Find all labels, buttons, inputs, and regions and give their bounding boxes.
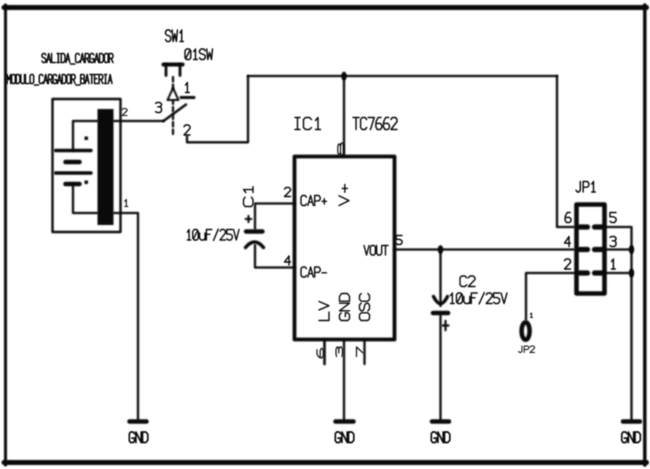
IC1 pin label V+ xyxy=(339,184,349,205)
JP1 pin 4 number xyxy=(565,237,571,247)
battery contact bar xyxy=(98,109,114,225)
battery cell plates xyxy=(56,151,92,185)
connector JP2 xyxy=(522,322,530,340)
label TC7662 xyxy=(353,118,397,130)
label IC1 xyxy=(295,118,321,130)
capacitor C1 xyxy=(246,216,264,248)
IC1 pin 2 number xyxy=(285,188,291,197)
wire V+ rail top xyxy=(248,75,557,77)
wire C1 to IC pin4 xyxy=(255,245,295,268)
IC1 pin label CAP- xyxy=(301,267,326,277)
wire VOUT to C2 xyxy=(439,250,441,307)
wire rail to JP1 pin 6 xyxy=(557,76,574,227)
battery pin 1 number xyxy=(125,200,128,207)
IC1 pin label OSC xyxy=(360,294,370,321)
JP1 pin 2 number xyxy=(565,259,571,269)
IC1 pin 6 number xyxy=(317,349,324,359)
junction node VOUT xyxy=(438,245,443,254)
wire V+ to IC pin 8 xyxy=(343,76,345,156)
switch pin 1 number xyxy=(186,83,190,93)
label SW1 xyxy=(166,30,184,42)
battery polarity dots xyxy=(85,137,89,185)
junction node pin3 xyxy=(629,245,634,254)
wire IC1 pin 3 to GND xyxy=(343,340,345,420)
capacitor C2 xyxy=(433,297,448,331)
IC1 pin label VOUT xyxy=(364,246,388,256)
IC1 pin 7 stub xyxy=(363,340,365,364)
wire VOUT to JP1 pin 4 xyxy=(395,248,575,250)
IC1 pin 6 stub xyxy=(323,340,326,364)
JP1 pads xyxy=(580,227,603,273)
junction node V+ xyxy=(341,72,346,81)
JP1 pin 1 number xyxy=(612,259,616,269)
label C1 value 10uF/25V xyxy=(187,229,239,240)
ground GND C2 xyxy=(432,419,449,424)
JP1 pin 3 number xyxy=(610,237,616,247)
wire JP1 pin 2 to JP2 xyxy=(526,273,577,320)
IC1 pin label LV xyxy=(319,302,329,321)
label JP1 xyxy=(576,182,595,193)
wire battery to switch pin 3 xyxy=(114,120,164,122)
wire JP1 pin5 bus to GND xyxy=(605,227,632,420)
label C2 value 10uF/25V xyxy=(450,293,507,304)
IC IC1 box xyxy=(295,157,395,340)
battery module outline xyxy=(53,99,121,232)
ground GND IC1 xyxy=(336,419,354,424)
label C2 xyxy=(460,276,475,287)
switch pin 3 number xyxy=(156,103,162,113)
switch pin 2 number xyxy=(184,125,190,135)
battery pin 2 number xyxy=(122,109,127,116)
wire switch pin2 to rail xyxy=(187,76,248,142)
IC1 pin 3 number xyxy=(336,347,343,357)
battery internal wiring xyxy=(73,121,98,213)
JP1 pin 6 number xyxy=(565,213,571,223)
IC1 pin 5 number xyxy=(396,236,402,245)
wire JP1 pin 1 xyxy=(605,272,632,274)
junction node pin1 xyxy=(629,269,634,278)
label JP2 xyxy=(519,346,535,353)
JP1 pin 5 number xyxy=(610,213,616,223)
ground GND JP1 xyxy=(623,419,640,424)
JP2 pin 1 number xyxy=(530,313,532,318)
label C1 xyxy=(244,187,254,207)
wire C2 to GND xyxy=(439,315,441,420)
wire JP1 pin 3 xyxy=(605,248,632,250)
IC1 pin 4 number xyxy=(285,256,291,265)
IC1 pin label CAP+ xyxy=(301,196,326,206)
wire IC pin2 to C1 xyxy=(255,204,295,230)
label SALIDA_CARGADOR xyxy=(42,54,113,65)
IC1 pin 7 number xyxy=(357,347,364,357)
IC1 pin label GND xyxy=(340,294,350,321)
connector JP1 box xyxy=(577,205,605,294)
label MODULO_CARGADOR_BATERIA xyxy=(7,75,112,86)
IC1 pin 8 number xyxy=(338,143,344,156)
switch SW1 xyxy=(164,65,195,136)
ground GND battery xyxy=(130,419,147,424)
label 01SW xyxy=(185,49,213,60)
wire battery pin1 to GND xyxy=(114,213,139,420)
